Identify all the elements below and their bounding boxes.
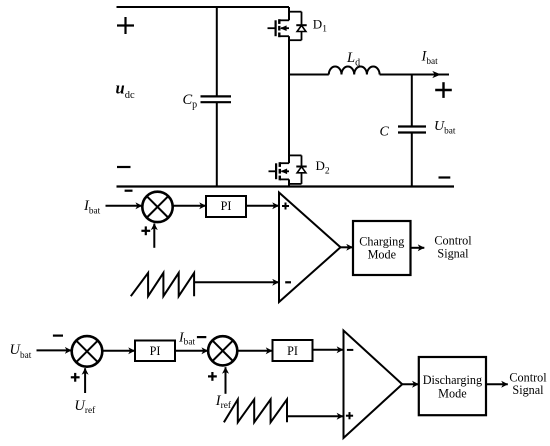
wire bottom bus: [117, 185, 455, 187]
wire top bus: [117, 6, 290, 8]
wire Iref arrow into S3: [225, 367, 227, 394]
wire S2 to PI block 1: [102, 350, 134, 352]
block discharging mode: [419, 357, 486, 415]
summing junction S1: [142, 192, 172, 222]
block PI charging: [206, 196, 246, 217]
node - terminal battery negative: [439, 176, 451, 178]
summing junction S2: [72, 336, 103, 367]
arrow Ibat current direction: [432, 71, 441, 78]
wire Ubat to summer S2: [37, 349, 72, 351]
label minus at S1: [125, 190, 133, 192]
label plus at S2: [71, 373, 80, 382]
wire inductor to battery node: [380, 74, 449, 76]
svg-text:PI: PI: [150, 344, 161, 358]
svg-text:Discharging: Discharging: [423, 373, 482, 387]
wire rail mid node to Q2: [288, 75, 290, 164]
block PI discharging 2: [273, 340, 313, 361]
label minus input U2: [347, 349, 353, 351]
wire C branch bottom: [411, 133, 413, 187]
svg-text:Control: Control: [509, 370, 547, 384]
capacitor Cp: [201, 96, 232, 102]
wire S1 to PI block: [173, 205, 206, 207]
summing junction S3: [208, 336, 237, 365]
wire Uref arrow into S2: [84, 368, 86, 393]
sawtooth carrier charging: [131, 273, 194, 296]
label plus input U1: [282, 203, 289, 210]
svg-text:Mode: Mode: [438, 386, 466, 400]
op-amp comparator U2: [344, 331, 403, 439]
wire Cp branch bottom: [216, 102, 218, 186]
wire sawtooth to comparator minus input: [194, 281, 279, 283]
wire mid node to inductor: [289, 74, 329, 76]
label minus input U1: [285, 281, 291, 283]
svg-text:Mode: Mode: [368, 248, 396, 262]
node + terminal udc positive: [117, 17, 134, 34]
sawtooth carrier discharging: [224, 399, 287, 422]
inductor Ld: [329, 66, 380, 74]
svg-text:Charging: Charging: [359, 235, 404, 249]
wire Ibat to summer S1: [106, 205, 143, 207]
op-amp comparator U1: [279, 193, 341, 303]
wire charging mode output: [411, 247, 425, 249]
wire U2 output: [402, 383, 418, 385]
transistor Q2: [269, 162, 290, 180]
wire sawtooth to comparator plus input: [287, 415, 343, 417]
wire reference arrow into S1: [153, 224, 155, 248]
label plus at S1: [141, 226, 150, 235]
block PI discharging 1: [135, 341, 175, 362]
label plus input U2: [346, 412, 353, 419]
svg-text:Signal: Signal: [437, 246, 469, 260]
wire U1 output: [341, 246, 353, 248]
block charging mode: [353, 221, 411, 275]
wire rail Q1 drain: [288, 7, 290, 20]
wire PI2 to comparator minus input: [313, 349, 344, 351]
wire PI to comparator plus input: [246, 205, 279, 207]
wire Cp branch top: [216, 7, 218, 96]
wire S3 to PI block 2: [237, 350, 272, 352]
svg-text:PI: PI: [221, 199, 232, 213]
svg-text:Signal: Signal: [512, 383, 544, 397]
label minus at S3: [197, 336, 206, 338]
svg-text:C: C: [380, 125, 390, 140]
wire PI1 to summer S3: [175, 350, 208, 352]
node - terminal udc negative: [117, 166, 131, 168]
diode D1: [289, 12, 307, 41]
wire C branch top: [411, 75, 413, 127]
node + terminal battery positive: [435, 82, 452, 98]
wire discharging mode output: [486, 383, 508, 385]
label minus at S2: [53, 335, 63, 337]
capacitor C: [398, 127, 426, 133]
label plus at S3: [208, 372, 217, 381]
wire rail between Q1 and mid node: [288, 36, 290, 74]
diode D2: [289, 155, 307, 184]
wire rail Q2 source to bottom bus: [288, 179, 290, 186]
svg-text:PI: PI: [287, 344, 298, 358]
transistor Q1: [268, 19, 290, 37]
